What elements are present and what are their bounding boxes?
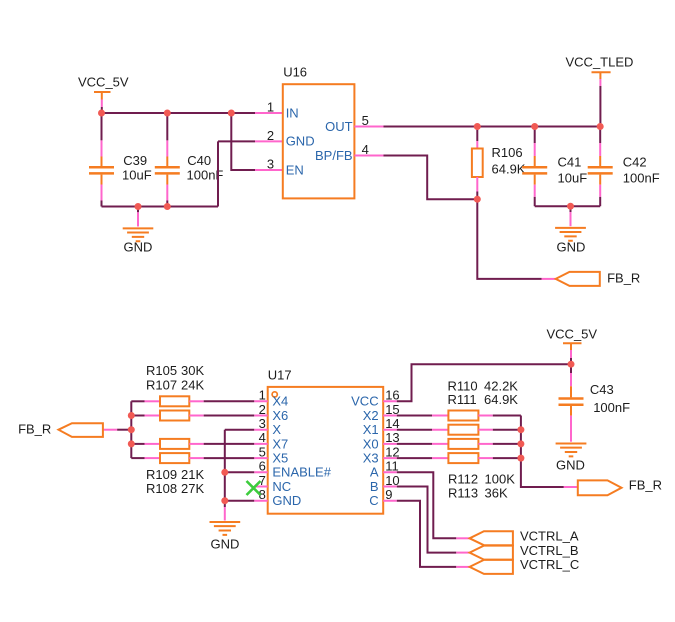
svg-text:ENABLE#: ENABLE# (272, 465, 331, 480)
svg-text:C42: C42 (623, 155, 647, 170)
svg-text:C39: C39 (123, 153, 147, 168)
svg-text:X: X (272, 422, 281, 437)
svg-text:EN: EN (286, 162, 304, 177)
svg-text:64.9K: 64.9K (492, 162, 526, 177)
svg-text:FB_R: FB_R (629, 478, 662, 493)
svg-text:B: B (370, 479, 379, 494)
svg-text:X6: X6 (272, 408, 288, 423)
svg-text:VCC_TLED: VCC_TLED (566, 54, 634, 69)
svg-text:X0: X0 (363, 436, 379, 451)
svg-text:1: 1 (267, 99, 274, 114)
svg-text:R105: R105 (146, 363, 177, 378)
svg-text:GND: GND (557, 239, 586, 254)
svg-text:100nF: 100nF (593, 400, 630, 415)
svg-text:10uF: 10uF (558, 170, 588, 185)
svg-text:R107: R107 (146, 377, 177, 392)
svg-text:C40: C40 (187, 153, 211, 168)
svg-text:X5: X5 (272, 451, 288, 466)
svg-text:VCTRL_B: VCTRL_B (520, 543, 579, 558)
svg-text:VCC_5V: VCC_5V (78, 75, 129, 90)
svg-text:10uF: 10uF (122, 167, 152, 182)
svg-text:R113: R113 (448, 485, 478, 500)
svg-text:36K: 36K (485, 485, 508, 500)
svg-text:R109: R109 (146, 467, 177, 482)
svg-text:GND: GND (124, 240, 153, 255)
svg-text:X4: X4 (272, 394, 288, 409)
svg-text:OUT: OUT (325, 119, 353, 134)
svg-text:GND: GND (556, 458, 585, 473)
svg-text:R108: R108 (146, 481, 177, 496)
svg-text:R106: R106 (492, 145, 523, 160)
svg-text:R111: R111 (448, 392, 477, 407)
svg-text:R112: R112 (448, 471, 478, 486)
svg-text:X7: X7 (272, 436, 288, 451)
svg-text:100nF: 100nF (623, 170, 660, 185)
svg-text:24K: 24K (181, 377, 204, 392)
svg-text:64.9K: 64.9K (484, 392, 518, 407)
svg-text:VCTRL_C: VCTRL_C (520, 557, 579, 572)
svg-text:BP/FB: BP/FB (315, 148, 353, 163)
svg-text:IN: IN (286, 105, 299, 120)
svg-text:FB_R: FB_R (18, 422, 51, 437)
svg-text:3: 3 (267, 156, 274, 171)
svg-text:30K: 30K (181, 363, 204, 378)
svg-text:X2: X2 (363, 408, 379, 423)
svg-text:U16: U16 (283, 64, 307, 79)
svg-text:C43: C43 (590, 382, 614, 397)
svg-text:C41: C41 (558, 155, 582, 170)
svg-text:27K: 27K (181, 481, 204, 496)
svg-text:VCC: VCC (351, 394, 378, 409)
svg-text:GND: GND (272, 493, 301, 508)
svg-text:GND: GND (211, 536, 240, 551)
svg-text:2: 2 (267, 128, 274, 143)
svg-text:VCC_5V: VCC_5V (547, 327, 598, 342)
svg-text:U17: U17 (268, 367, 292, 382)
svg-text:100K: 100K (485, 471, 516, 486)
svg-text:FB_R: FB_R (607, 271, 640, 286)
svg-text:A: A (370, 465, 379, 480)
svg-text:21K: 21K (181, 467, 204, 482)
svg-text:X1: X1 (363, 422, 379, 437)
svg-text:GND: GND (286, 134, 315, 149)
svg-text:X3: X3 (363, 451, 379, 466)
svg-text:C: C (369, 493, 378, 508)
svg-text:NC: NC (272, 479, 291, 494)
svg-text:VCTRL_A: VCTRL_A (520, 529, 579, 544)
